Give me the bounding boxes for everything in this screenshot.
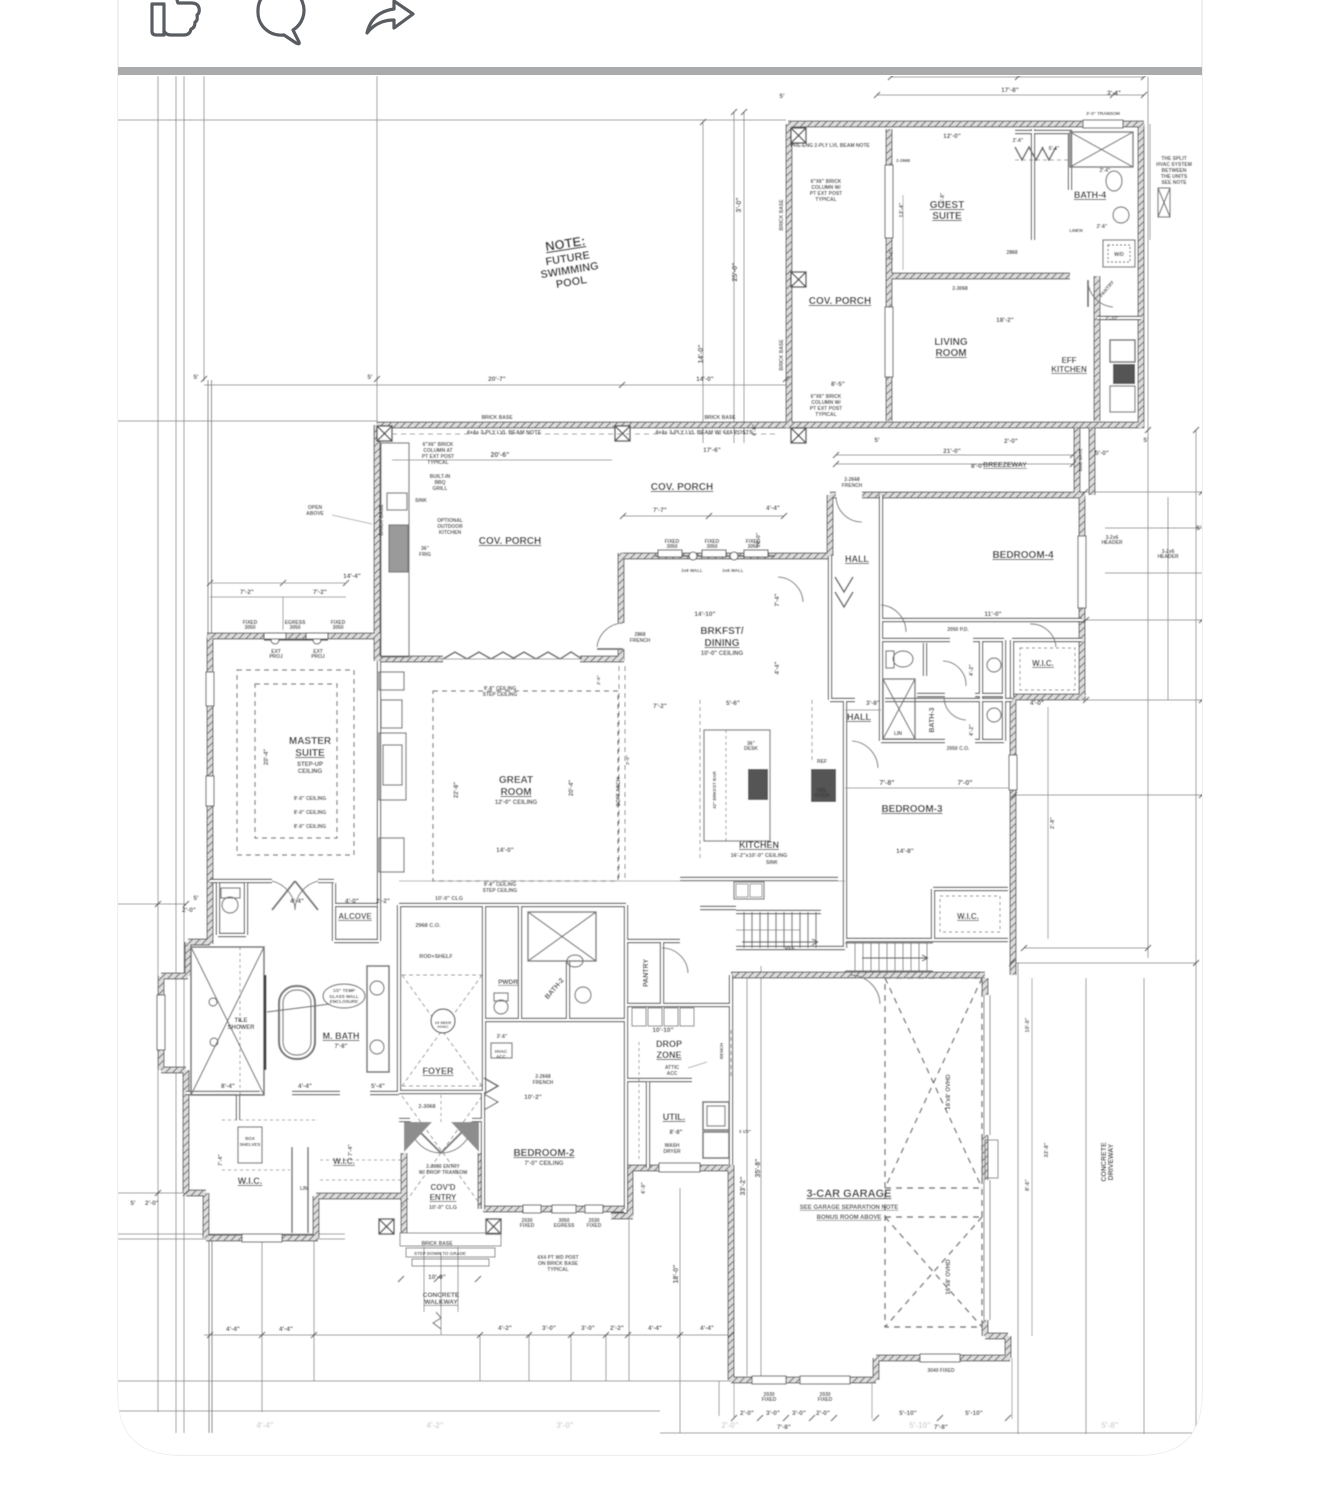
svg-text:4'-2": 4'-2" — [969, 664, 975, 676]
svg-text:12'-0" CEILING: 12'-0" CEILING — [495, 800, 538, 806]
svg-text:2'-2": 2'-2" — [376, 898, 390, 905]
svg-text:20'-7": 20'-7" — [488, 376, 506, 383]
svg-text:5'-6": 5'-6" — [726, 700, 740, 707]
svg-text:4'-4": 4'-4" — [775, 661, 781, 674]
svg-text:7'-8": 7'-8" — [335, 1044, 348, 1050]
svg-text:3050: 3050 — [332, 625, 343, 631]
svg-text:BRICK BASE: BRICK BASE — [704, 415, 736, 421]
svg-text:4x4s 3-PLY LVL BEAM NOTE: 4x4s 3-PLY LVL BEAM NOTE — [467, 430, 542, 436]
svg-text:2'-0": 2'-0" — [721, 1421, 738, 1430]
svg-text:W.I.C.: W.I.C. — [333, 1157, 355, 1166]
svg-text:FRENCH: FRENCH — [630, 638, 651, 644]
svg-text:FOYER: FOYER — [422, 1066, 454, 1076]
svg-text:BATH-3: BATH-3 — [929, 707, 936, 732]
svg-text:3'-6": 3'-6" — [497, 1034, 508, 1040]
svg-text:FIXED: FIXED — [520, 1223, 535, 1229]
svg-text:20'-6": 20'-6" — [491, 452, 510, 459]
svg-text:3-CAR GARAGE: 3-CAR GARAGE — [807, 1188, 892, 1200]
svg-text:REF: REF — [817, 759, 827, 765]
svg-text:2x6 WALL: 2x6 WALL — [681, 568, 703, 573]
svg-text:DINING: DINING — [705, 638, 740, 649]
svg-text:8'-6": 8'-6" — [1025, 1179, 1031, 1191]
svg-text:FRENCH: FRENCH — [533, 1080, 554, 1086]
svg-text:TYPICAL: TYPICAL — [547, 1267, 568, 1273]
svg-text:ROOM: ROOM — [500, 787, 531, 798]
svg-text:STEP CEILING: STEP CEILING — [483, 888, 518, 894]
svg-text:3 1/2": 3 1/2" — [739, 1129, 751, 1134]
svg-text:SUITE: SUITE — [295, 748, 325, 759]
svg-text:SOFT ARCH: SOFT ARCH — [616, 777, 622, 806]
svg-text:8'-0" CEILING: 8'-0" CEILING — [294, 810, 327, 816]
svg-text:35'-8": 35'-8" — [755, 1159, 762, 1178]
svg-text:DRIVEWAY: DRIVEWAY — [1108, 1143, 1115, 1180]
svg-text:8'-0" CEILING: 8'-0" CEILING — [294, 824, 327, 830]
svg-text:FIXED: FIXED — [762, 1397, 777, 1403]
svg-text:25'-0": 25'-0" — [732, 263, 739, 282]
svg-text:5'-8": 5'-8" — [940, 192, 946, 203]
svg-text:3'-0": 3'-0" — [556, 1421, 573, 1430]
svg-text:DESK: DESK — [744, 746, 758, 752]
svg-text:3'-0": 3'-0" — [766, 1410, 780, 1417]
svg-text:5': 5' — [193, 895, 199, 902]
svg-text:18'-2": 18'-2" — [996, 317, 1014, 324]
svg-text:10'-10": 10'-10" — [652, 1027, 673, 1034]
svg-text:2'-0": 2'-0" — [1004, 438, 1018, 445]
svg-text:ROOM: ROOM — [935, 348, 966, 359]
svg-text:4'-0": 4'-0" — [345, 898, 359, 905]
svg-text:LIN: LIN — [894, 731, 902, 737]
svg-text:7'-8": 7'-8" — [934, 1424, 948, 1431]
svg-text:2'-10": 2'-10" — [1105, 316, 1119, 322]
svg-text:BEDROOM-3: BEDROOM-3 — [881, 804, 943, 815]
svg-text:BRICK BASE: BRICK BASE — [379, 504, 385, 536]
svg-text:PANTRY: PANTRY — [643, 959, 650, 987]
svg-text:13'-4": 13'-4" — [899, 202, 905, 217]
svg-text:18'-0": 18'-0" — [673, 1265, 680, 1284]
svg-text:HALL: HALL — [847, 712, 871, 722]
svg-text:2-2668: 2-2668 — [896, 158, 911, 163]
svg-text:3'-0": 3'-0" — [736, 197, 743, 212]
svg-text:3050: 3050 — [666, 544, 677, 550]
svg-text:3'-0": 3'-0" — [581, 1325, 595, 1332]
svg-text:GRILL: GRILL — [433, 486, 448, 492]
svg-text:3068 GATE: 3068 GATE — [1078, 448, 1083, 471]
svg-text:ABOVE: ABOVE — [306, 511, 324, 517]
svg-text:BATH-4: BATH-4 — [1074, 190, 1106, 200]
svg-text:W/D: W/D — [1114, 252, 1124, 258]
svg-text:SHOWER: SHOWER — [228, 1025, 256, 1031]
svg-text:5'-10": 5'-10" — [909, 1421, 931, 1430]
svg-text:7'-4": 7'-4" — [889, 249, 895, 260]
svg-text:SINK: SINK — [415, 498, 427, 504]
svg-text:4'-4": 4'-4" — [256, 1421, 273, 1430]
svg-text:2968 C.O.: 2968 C.O. — [415, 923, 441, 929]
svg-text:5': 5' — [1143, 437, 1149, 444]
svg-text:7'-7": 7'-7" — [653, 507, 667, 514]
svg-text:3'-8": 3'-8" — [866, 700, 880, 707]
svg-text:2'-0": 2'-0" — [740, 1410, 754, 1417]
svg-text:W.I.C.: W.I.C. — [238, 1176, 263, 1186]
svg-text:3050: 3050 — [706, 544, 717, 550]
svg-text:5': 5' — [874, 437, 880, 444]
svg-text:FRIG: FRIG — [419, 552, 431, 558]
svg-text:SEE NOTE: SEE NOTE — [1161, 180, 1187, 186]
svg-text:2'-8": 2'-8" — [1050, 817, 1056, 829]
svg-text:ROD+SHELF: ROD+SHELF — [419, 954, 453, 960]
svg-text:5'-10": 5'-10" — [899, 1410, 917, 1417]
svg-text:33'-2": 33'-2" — [740, 1177, 747, 1196]
svg-text:8'-5": 8'-5" — [831, 381, 845, 388]
svg-text:CONCRETE: CONCRETE — [423, 1292, 460, 1299]
svg-text:BRICK BASE: BRICK BASE — [421, 1241, 453, 1247]
svg-text:CONCRETE: CONCRETE — [1101, 1142, 1108, 1182]
svg-text:20'-4": 20'-4" — [264, 749, 270, 765]
svg-text:2050 C.O.: 2050 C.O. — [947, 746, 970, 752]
svg-text:2'-4": 2'-4" — [1100, 168, 1111, 174]
svg-text:5'-8": 5'-8" — [1101, 1421, 1118, 1430]
svg-text:8'-8": 8'-8" — [670, 1130, 683, 1136]
svg-text:4'-2": 4'-2" — [969, 724, 975, 736]
svg-text:42" BRKFST BAR: 42" BRKFST BAR — [712, 770, 717, 808]
svg-text:4'-4": 4'-4" — [298, 1083, 312, 1090]
svg-text:TYPICAL: TYPICAL — [427, 460, 448, 466]
svg-text:DROP: DROP — [656, 1039, 682, 1049]
svg-text:KITCHEN: KITCHEN — [739, 840, 779, 850]
svg-text:11'-0": 11'-0" — [984, 611, 1001, 618]
svg-text:ACC: ACC — [496, 1054, 506, 1059]
svg-text:2868: 2868 — [1006, 250, 1017, 256]
svg-text:5': 5' — [779, 93, 785, 100]
svg-text:2'-2": 2'-2" — [610, 1325, 624, 1332]
svg-text:BONUS ROOM ABOVE: BONUS ROOM ABOVE — [817, 1215, 882, 1221]
svg-text:PRE-ENG 2-PLY LVL BEAM NOTE: PRE-ENG 2-PLY LVL BEAM NOTE — [790, 143, 870, 149]
svg-text:5': 5' — [367, 374, 373, 381]
svg-text:8'-4": 8'-4" — [221, 1083, 235, 1090]
svg-text:PROJ: PROJ — [311, 654, 325, 660]
svg-text:4'-4": 4'-4" — [290, 898, 304, 905]
svg-text:7'-2": 7'-2" — [653, 703, 667, 710]
svg-text:14'-4": 14'-4" — [343, 573, 361, 580]
svg-text:GUEST: GUEST — [930, 200, 964, 211]
svg-text:COV. PORCH: COV. PORCH — [651, 482, 713, 493]
svg-text:3'-4": 3'-4" — [1107, 90, 1121, 97]
svg-text:14'-0": 14'-0" — [698, 345, 705, 364]
svg-text:5'-4": 5'-4" — [1049, 146, 1060, 152]
svg-text:16'x8' OVHD: 16'x8' OVHD — [946, 1074, 952, 1110]
svg-text:TYPICAL: TYPICAL — [815, 412, 836, 418]
svg-text:4'-2": 4'-2" — [426, 1421, 443, 1430]
svg-text:COV. PORCH: COV. PORCH — [809, 296, 871, 307]
svg-text:ZONE: ZONE — [656, 1050, 681, 1060]
svg-text:STEP CEILING: STEP CEILING — [483, 692, 518, 698]
svg-text:9'-0" CEILING: 9'-0" CEILING — [294, 796, 327, 802]
svg-text:SEE GARAGE SEPARATION NOTE: SEE GARAGE SEPARATION NOTE — [800, 1205, 898, 1211]
svg-text:FIXED: FIXED — [818, 1397, 833, 1403]
svg-text:WALKWAY: WALKWAY — [424, 1299, 458, 1306]
svg-text:2'-0": 2'-0" — [816, 1410, 830, 1417]
svg-text:7'-4": 7'-4" — [348, 1144, 354, 1156]
svg-text:7'-4": 7'-4" — [775, 593, 781, 606]
svg-text:3040 FIXED: 3040 FIXED — [927, 1368, 955, 1374]
svg-text:FIXED: FIXED — [587, 1223, 602, 1229]
svg-text:7'-2": 7'-2" — [240, 589, 254, 596]
svg-text:BRICK BASE: BRICK BASE — [481, 415, 513, 421]
svg-text:5'-10": 5'-10" — [965, 1410, 983, 1417]
svg-text:20'-4": 20'-4" — [569, 780, 575, 796]
svg-text:SUITE: SUITE — [932, 211, 962, 222]
svg-text:5': 5' — [130, 1200, 136, 1207]
svg-text:2'-6": 2'-6" — [596, 675, 601, 685]
svg-text:HEADER: HEADER — [1157, 554, 1179, 560]
svg-text:OVEN: OVEN — [815, 793, 830, 799]
svg-text:UTIL.: UTIL. — [663, 1112, 686, 1122]
svg-text:14'-0": 14'-0" — [496, 847, 514, 854]
svg-text:KITCHEN: KITCHEN — [439, 530, 462, 536]
svg-text:LIN: LIN — [300, 1186, 308, 1192]
svg-text:CEILING: CEILING — [298, 769, 323, 775]
svg-text:EFF: EFF — [1061, 356, 1076, 365]
svg-text:4'-0": 4'-0" — [1030, 700, 1044, 707]
svg-text:COV'D: COV'D — [430, 1183, 455, 1192]
svg-text:2'-0": 2'-0" — [145, 1200, 159, 1207]
svg-text:2'-6": 2'-6" — [1097, 224, 1108, 230]
svg-text:10'-0" CLG: 10'-0" CLG — [435, 896, 463, 902]
svg-text:HEADER: HEADER — [1101, 540, 1123, 546]
svg-text:EGRESS: EGRESS — [554, 1223, 576, 1229]
svg-text:3050: 3050 — [289, 625, 300, 631]
svg-text:33'-8": 33'-8" — [1044, 1142, 1050, 1157]
svg-text:BRKFST/: BRKFST/ — [700, 626, 744, 637]
svg-text:10'-0" CLG: 10'-0" CLG — [429, 1205, 457, 1211]
svg-text:4'-0": 4'-0" — [752, 424, 758, 436]
svg-text:ENTRY: ENTRY — [430, 1193, 457, 1202]
svg-text:8'-0": 8'-0" — [971, 463, 985, 470]
svg-text:STEP-UP: STEP-UP — [297, 762, 323, 768]
svg-text:7'-8": 7'-8" — [777, 1424, 791, 1431]
svg-text:4'-2": 4'-2" — [498, 1325, 512, 1332]
svg-text:10'-0": 10'-0" — [1025, 1017, 1031, 1032]
svg-text:BEDROOM-2: BEDROOM-2 — [513, 1148, 575, 1159]
svg-text:TILE: TILE — [235, 1018, 248, 1024]
svg-text:14'-8": 14'-8" — [896, 848, 914, 855]
svg-text:4'-4": 4'-4" — [226, 1326, 240, 1333]
svg-text:REF: REF — [785, 946, 795, 952]
svg-text:W.I.C.: W.I.C. — [957, 912, 979, 921]
svg-text:14'-0": 14'-0" — [696, 376, 714, 383]
svg-text:SHELVES: SHELVES — [240, 1142, 261, 1147]
svg-text:10'-0" CEILING: 10'-0" CEILING — [701, 651, 744, 657]
svg-text:4'-4": 4'-4" — [648, 1325, 662, 1332]
svg-text:STEP DOWN TO GRADE: STEP DOWN TO GRADE — [414, 1251, 466, 1256]
svg-text:7'-2": 7'-2" — [313, 589, 327, 596]
svg-text:LIVING: LIVING — [934, 337, 968, 348]
svg-text:M. BATH: M. BATH — [323, 1031, 360, 1041]
svg-text:4'-0": 4'-0" — [641, 1182, 647, 1194]
svg-text:2050 P.D.: 2050 P.D. — [947, 627, 969, 633]
svg-text:BRICK BASE: BRICK BASE — [779, 339, 785, 371]
svg-text:BENCH: BENCH — [719, 1043, 724, 1059]
svg-text:21'-0": 21'-0" — [943, 448, 961, 455]
svg-text:COV. PORCH: COV. PORCH — [479, 536, 541, 547]
svg-text:22'-8": 22'-8" — [454, 782, 460, 798]
svg-text:16'x8' OVHD: 16'x8' OVHD — [946, 1259, 952, 1295]
svg-text:HVAC: HVAC — [437, 1024, 448, 1029]
svg-text:12'-0": 12'-0" — [943, 133, 961, 140]
svg-text:2'-0": 2'-0" — [625, 755, 630, 765]
svg-text:17'-8": 17'-8" — [1001, 87, 1019, 94]
svg-text:ALCOVE: ALCOVE — [338, 912, 372, 921]
svg-text:7'-0" CEILING: 7'-0" CEILING — [525, 1161, 564, 1167]
svg-text:PROJ: PROJ — [269, 654, 283, 660]
svg-text:10'-0": 10'-0" — [756, 532, 762, 547]
svg-text:2-3068: 2-3068 — [952, 286, 968, 292]
svg-text:LINEN: LINEN — [1069, 228, 1083, 233]
svg-text:5'-0": 5'-0" — [1095, 450, 1109, 457]
svg-text:10'-2": 10'-2" — [524, 1094, 542, 1101]
svg-text:2'-6": 2'-6" — [1013, 138, 1024, 144]
svg-text:BEDROOM-4: BEDROOM-4 — [992, 550, 1054, 561]
svg-text:14'-10": 14'-10" — [694, 611, 715, 618]
svg-text:ENCLOSURE: ENCLOSURE — [330, 999, 358, 1004]
svg-text:MASTER: MASTER — [289, 736, 332, 747]
svg-text:1/2" TEMP: 1/2" TEMP — [333, 988, 355, 993]
svg-text:2'-0": 2'-0" — [182, 907, 196, 914]
svg-text:KITCHEN: KITCHEN — [1051, 365, 1087, 374]
svg-text:7'-8": 7'-8" — [879, 780, 894, 787]
svg-text:3'-0": 3'-0" — [542, 1325, 556, 1332]
svg-text:3050: 3050 — [244, 625, 255, 631]
svg-text:5'-4": 5'-4" — [371, 1083, 385, 1090]
svg-text:BRICK BASE: BRICK BASE — [779, 199, 785, 231]
svg-text:DRYER: DRYER — [663, 1149, 681, 1155]
svg-text:4'-4": 4'-4" — [766, 505, 780, 512]
svg-text:17'-6": 17'-6" — [703, 447, 721, 454]
svg-text:TYPICAL: TYPICAL — [815, 197, 836, 203]
svg-text:2x6 WALL: 2x6 WALL — [722, 568, 744, 573]
svg-text:ACC: ACC — [667, 1071, 678, 1077]
svg-text:4'-4": 4'-4" — [279, 1326, 293, 1333]
svg-text:GREAT: GREAT — [499, 775, 533, 786]
svg-text:7'-4": 7'-4" — [218, 1154, 224, 1166]
svg-text:7'-0": 7'-0" — [957, 780, 972, 787]
svg-text:W/ DROP TRANSOM: W/ DROP TRANSOM — [419, 1170, 468, 1176]
svg-text:FRENCH: FRENCH — [842, 483, 863, 489]
svg-text:4'-4": 4'-4" — [700, 1325, 714, 1332]
svg-text:3'-0": 3'-0" — [792, 1410, 806, 1417]
svg-text:BREEZEWAY: BREEZEWAY — [983, 462, 1027, 469]
svg-text:16'-2"x10'-0" CEILING: 16'-2"x10'-0" CEILING — [731, 853, 788, 859]
svg-text:10'-0": 10'-0" — [428, 1274, 446, 1281]
svg-text:5': 5' — [193, 374, 199, 381]
svg-text:SINK: SINK — [766, 860, 778, 866]
svg-text:5': 5' — [1196, 525, 1202, 532]
svg-text:3'-0" TRANSOM: 3'-0" TRANSOM — [1086, 111, 1120, 116]
svg-text:W.I.C.: W.I.C. — [1032, 659, 1054, 668]
svg-text:4x4s 3-PLY LVL BEAM W/ 6X6 POS: 4x4s 3-PLY LVL BEAM W/ 6X6 POSTS — [655, 430, 753, 436]
svg-text:BOX: BOX — [245, 1136, 255, 1141]
svg-text:HALL: HALL — [845, 554, 869, 564]
svg-text:PWDR: PWDR — [498, 979, 518, 986]
svg-text:2-3068: 2-3068 — [418, 1104, 435, 1110]
